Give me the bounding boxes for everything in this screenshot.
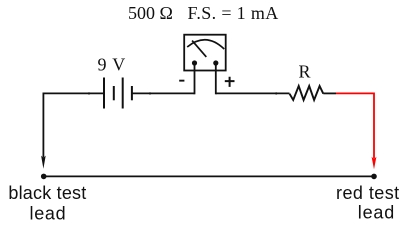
svg-text:lead: lead	[358, 203, 395, 223]
black arrowhead on black test lead	[41, 156, 46, 169]
svg-text:red test: red test	[336, 183, 400, 203]
node: red test lead terminal dot	[371, 174, 377, 180]
wire: short black segment right of resistor	[323, 92, 336, 94]
junction dot on wire left of resistor	[275, 92, 277, 94]
battery 9V: long plate 1	[103, 78, 105, 109]
battery 9V: short plate 2	[113, 86, 115, 100]
battery 9V: long plate 3	[122, 78, 124, 109]
wire: red vertical lead down	[373, 93, 375, 159]
wire: left top rail from corner to battery	[43, 92, 104, 94]
meter minus terminal label	[179, 80, 184, 82]
wire: meter right lead down	[215, 63, 217, 94]
svg-text:black test: black test	[8, 183, 86, 203]
meter M1 scale arc	[187, 40, 224, 49]
wire: meter right lead to resistor	[216, 92, 290, 94]
meter M1 left terminal dot	[192, 60, 197, 65]
meter M1 needle	[192, 41, 206, 57]
wire: bottom rail	[44, 175, 374, 177]
meter M1 body box	[184, 35, 226, 71]
battery 9V: short plate 4	[131, 86, 133, 100]
svg-text:500 Ω: 500 Ω	[128, 3, 173, 23]
wire: left vertical lead down	[42, 93, 44, 158]
meter M1 right terminal dot	[213, 60, 218, 65]
wire: red horizontal segment to corner	[336, 92, 374, 94]
junction dot on wire right of battery	[149, 92, 151, 94]
svg-text:lead: lead	[30, 204, 67, 224]
svg-text:R: R	[299, 62, 311, 82]
meter plus terminal label	[225, 77, 235, 87]
red arrowhead on red test lead	[372, 157, 377, 170]
wire: meter left lead down	[194, 63, 196, 94]
svg-text:9 V: 9 V	[98, 55, 127, 75]
wire: battery to meter left lead	[132, 92, 195, 94]
svg-text:F.S. = 1 mA: F.S. = 1 mA	[188, 3, 279, 23]
junction dot on wire left of battery	[88, 92, 90, 94]
resistor R zigzag	[290, 86, 324, 100]
node: black test lead terminal dot	[41, 174, 47, 180]
